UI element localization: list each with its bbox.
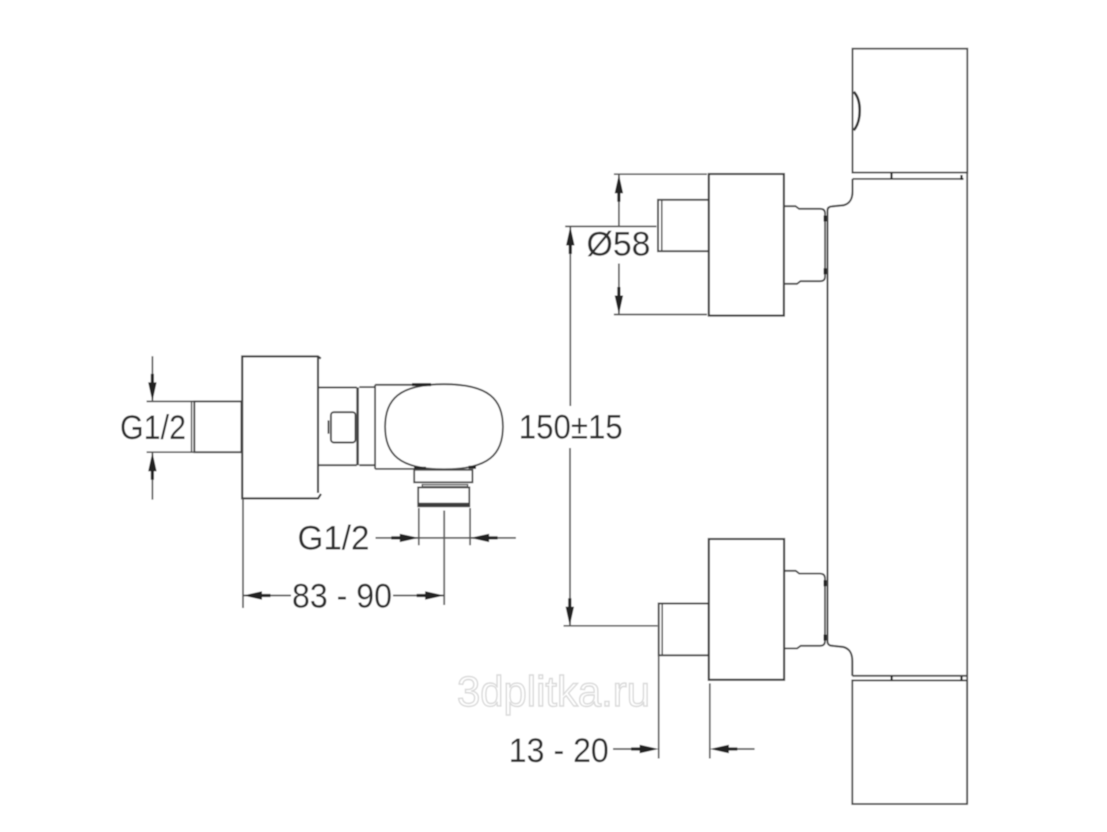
dimension 13-20	[613, 656, 755, 759]
aerator	[418, 487, 469, 506]
double line under top box	[853, 178, 964, 180]
right edge of bar	[966, 173, 968, 804]
arrow 83-90 right	[417, 591, 445, 599]
bump arc on left edge of top box	[854, 92, 860, 131]
upper handle cylinder	[709, 174, 784, 316]
arrow G1/2 left bottom (up)	[148, 452, 156, 480]
svg-text:83 - 90: 83 - 90	[292, 578, 392, 616]
valve neck	[318, 387, 358, 465]
knob (handle) superellipse	[385, 384, 503, 469]
Ø58 dimension	[614, 174, 707, 314]
arrow Ø58 top (up)	[615, 174, 623, 202]
wall bar body profile with S-curves	[828, 179, 853, 676]
arrow 13-20 left (points right)	[631, 745, 659, 753]
tick marks above bottom box	[892, 676, 962, 681]
upper handle cap	[658, 200, 711, 251]
spout G1/2 dimension	[376, 508, 516, 545]
spout centerline	[443, 511, 445, 606]
arrow 83-90 left	[243, 591, 271, 599]
svg-text:13 - 20: 13 - 20	[509, 732, 609, 770]
svg-text:150±15: 150±15	[519, 408, 623, 446]
svg-text:G1/2: G1/2	[120, 409, 186, 447]
lower handle cylinder	[709, 539, 784, 680]
arrow G1/2 left top (down)	[148, 374, 156, 402]
neck groove ticks lower	[824, 580, 827, 640]
wall escutcheon body	[242, 356, 321, 498]
arrow spout G1/2 right	[470, 534, 498, 542]
junction marks knob/base	[412, 385, 476, 469]
spout ring	[422, 485, 467, 487]
lower handle neck/flange	[784, 571, 825, 649]
bottom box (shower bar lower bracket)	[852, 680, 967, 804]
neck groove ticks upper	[824, 216, 827, 275]
dimension 150±15	[564, 226, 658, 625]
arrow 150 top (up)	[566, 226, 574, 254]
cap ring	[359, 385, 425, 469]
svg-text:Ø58: Ø58	[587, 225, 651, 263]
upper handle neck/flange	[784, 206, 825, 284]
arrow spout G1/2 left	[391, 534, 419, 542]
safety button	[329, 412, 356, 442]
lower handle cap	[659, 604, 709, 656]
arrow Ø58 bottom (down)	[615, 287, 623, 315]
dimension G1/2 left: vertical dim line	[147, 356, 194, 499]
svg-text:3dplitka.ru: 3dplitka.ru	[457, 668, 650, 716]
spout neck	[414, 470, 472, 483]
arrow 150 bottom (down)	[566, 598, 574, 626]
svg-text:G1/2: G1/2	[298, 520, 370, 558]
double line above bottom box	[852, 675, 967, 677]
inlet nipple	[192, 401, 242, 452]
arrow 13-20 right (points left)	[710, 745, 738, 753]
tick marks under top box	[892, 173, 962, 180]
dimension 83-90	[243, 499, 444, 609]
top box (shower bar upper bracket)	[853, 49, 968, 173]
